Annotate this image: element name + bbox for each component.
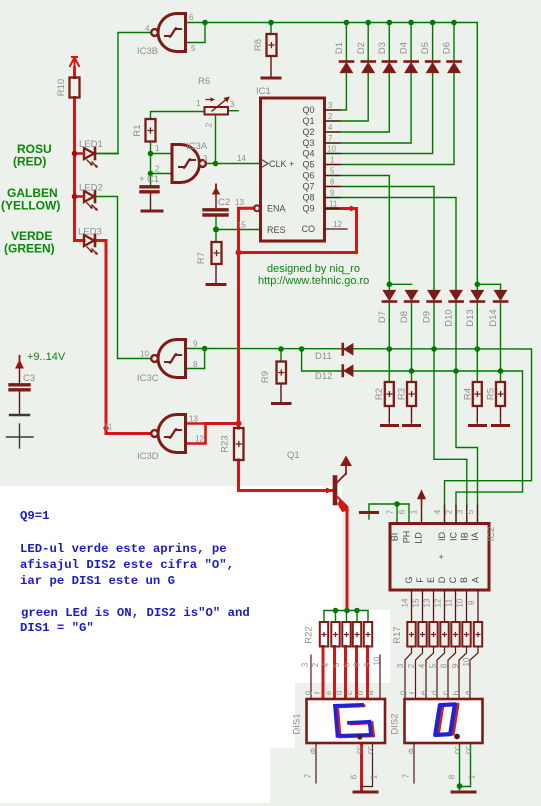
svg-text:D4: D4 xyxy=(399,42,410,54)
display DIS1 box xyxy=(307,699,386,743)
svg-text:4: 4 xyxy=(145,24,150,33)
diode D4 xyxy=(405,62,418,73)
svg-text:g: g xyxy=(303,691,312,695)
wire IC2 BI PH pins to ground xyxy=(369,504,409,519)
arrowhead red corner above Q1 base xyxy=(326,488,334,494)
svg-text:b: b xyxy=(356,690,365,695)
wire R3 bottom to ground xyxy=(411,406,413,423)
wire red R23 to Q1 base xyxy=(239,460,334,491)
wire R2 bottom to ground xyxy=(388,406,390,423)
svg-text:4: 4 xyxy=(322,662,331,667)
wire D7 pair stub down xyxy=(388,284,390,290)
junction red dot Q9 ENA IC3D node xyxy=(236,250,242,256)
svg-text:c: c xyxy=(345,691,354,695)
junction dots green xyxy=(148,20,504,789)
wire pot R6 pin3 stub xyxy=(228,110,238,112)
wire red R22 outputs to DIS1 xyxy=(322,647,325,700)
resistor R8 xyxy=(267,34,277,56)
svg-text:10: 10 xyxy=(140,350,149,359)
svg-text:10: 10 xyxy=(373,656,382,665)
svg-text:A: A xyxy=(471,577,481,583)
diode D5 xyxy=(426,62,439,73)
wire R22 rail stubs down to resistors xyxy=(323,611,325,623)
wire red IC3D input node to R23 xyxy=(206,424,239,429)
svg-text:Φ: Φ xyxy=(407,748,416,754)
white panel R22 zone xyxy=(295,610,390,683)
wire R9 bottom to ground xyxy=(280,384,282,403)
ground below C3 xyxy=(7,424,34,448)
svg-text:6: 6 xyxy=(330,178,335,187)
svg-text:7: 7 xyxy=(386,509,395,514)
wire IC3A output to IC1 CLK xyxy=(203,163,261,165)
svg-text:7: 7 xyxy=(328,134,333,143)
svg-text:D: D xyxy=(437,576,447,583)
svg-text:1: 1 xyxy=(370,774,379,779)
ground below R5 xyxy=(493,424,509,427)
wire D14 stub down xyxy=(500,284,502,290)
svg-text:CO: CO xyxy=(302,224,316,234)
svg-text:2: 2 xyxy=(407,663,416,668)
svg-text:IA: IA xyxy=(470,532,480,541)
resistor R2 xyxy=(385,382,394,406)
svg-text:6: 6 xyxy=(350,774,359,779)
wire red ENA stub xyxy=(239,207,255,210)
svg-text:D3: D3 xyxy=(377,42,388,54)
wire top bus from IC3B output pins to diode row xyxy=(205,23,501,285)
diode D2 xyxy=(362,62,375,73)
IC2 top pin stubs xyxy=(445,505,478,524)
blue description text block xyxy=(20,509,250,635)
svg-text:C: C xyxy=(448,576,458,583)
wire IC1 Q4 to D5 xyxy=(325,73,433,154)
GREEN WIRES xyxy=(96,23,532,792)
DIS1 digit G red shadow xyxy=(338,706,374,737)
wire DIS2 CC2 jog xyxy=(460,743,471,787)
svg-text:IC2: IC2 xyxy=(486,527,497,542)
svg-text:cc: cc xyxy=(464,746,473,754)
svg-text:13: 13 xyxy=(235,198,244,207)
svg-text:14: 14 xyxy=(237,154,246,163)
svg-text:D10: D10 xyxy=(444,309,455,326)
svg-text:IC: IC xyxy=(449,531,459,541)
svg-text:DIS2: DIS2 xyxy=(390,713,401,734)
DIS1 decimal point xyxy=(357,734,362,739)
svg-text:F: F xyxy=(415,577,425,583)
arrowhead red at IC3D output corner xyxy=(103,427,109,435)
wire D13 pair stub down xyxy=(476,284,478,290)
wire segment rail 1 from IC3C output xyxy=(205,349,532,524)
svg-text:R4: R4 xyxy=(463,388,474,400)
svg-text:d: d xyxy=(335,691,344,695)
svg-text:R7: R7 xyxy=(196,252,207,264)
svg-text:5: 5 xyxy=(332,662,341,667)
diode D8 xyxy=(405,291,418,302)
svg-text:D7: D7 xyxy=(377,311,388,323)
svg-text:C2: C2 xyxy=(218,197,230,208)
svg-text:3: 3 xyxy=(301,662,310,667)
svg-text:2: 2 xyxy=(328,112,333,121)
wire D13 column through rail1 to R4 xyxy=(476,303,478,383)
wire IC1 Q8 to D10 xyxy=(325,198,457,291)
resistor R10 xyxy=(70,78,80,98)
IC1 ENA bubble pin13 xyxy=(254,205,260,211)
supply arrow above C3 xyxy=(15,355,24,369)
svg-text:4: 4 xyxy=(328,123,333,132)
svg-text:B: B xyxy=(459,577,469,583)
wire R5 bottom to ground xyxy=(500,406,502,423)
svg-text:+: + xyxy=(139,174,145,185)
svg-text:5: 5 xyxy=(191,44,196,53)
DIS2 digit 0 red shadow xyxy=(438,704,458,735)
svg-text:R9: R9 xyxy=(260,371,271,383)
svg-text:2: 2 xyxy=(155,165,160,174)
svg-text:cc: cc xyxy=(453,746,462,754)
svg-text:g: g xyxy=(398,691,407,695)
wire R9 top xyxy=(280,349,282,362)
svg-text:9: 9 xyxy=(451,663,460,668)
ground below R7 xyxy=(207,283,225,286)
DIS2 digit 0 blue xyxy=(435,704,455,735)
LED LED1 xyxy=(74,148,98,168)
white text panel xyxy=(0,486,295,748)
wire red supply arrow to R10 xyxy=(73,68,76,78)
svg-text:11: 11 xyxy=(445,598,454,607)
diode D9 xyxy=(428,291,441,302)
wire IC3B input tie xyxy=(186,23,206,43)
svg-text:cc: cc xyxy=(355,746,364,754)
svg-text:Q9: Q9 xyxy=(303,204,315,214)
svg-text:LED1: LED1 xyxy=(79,139,103,150)
wire IC1 Q5 to D6 xyxy=(325,73,455,165)
IC2 internal labels xyxy=(390,531,481,584)
diode D12 xyxy=(343,366,353,377)
svg-text:3: 3 xyxy=(396,663,405,668)
ground below R9 xyxy=(273,402,291,405)
wire IC3B pin4 to LED1 cathode xyxy=(96,33,152,154)
svg-text:10: 10 xyxy=(327,145,336,154)
diode D1 xyxy=(340,62,353,73)
svg-text:RES: RES xyxy=(267,225,286,235)
wire DIS1 CC2 jog xyxy=(362,743,373,787)
COMPONENTS (maroon) xyxy=(70,14,348,453)
wire IC1 Q6 to D7 D8 pair xyxy=(325,176,412,285)
svg-text:DIS1 = "G": DIS1 = "G" xyxy=(20,621,94,635)
svg-text:a: a xyxy=(463,690,472,695)
svg-text:3: 3 xyxy=(230,100,235,109)
svg-text:2: 2 xyxy=(445,509,454,514)
svg-text:http://www.tehnic.go.ro: http://www.tehnic.go.ro xyxy=(258,275,369,287)
resistor R7 xyxy=(212,242,222,264)
wires DIS1 extra pins xyxy=(311,655,380,699)
svg-text:(GREEN): (GREEN) xyxy=(4,242,55,256)
LABELS: pin numbers gray xyxy=(104,13,342,444)
svg-text:iar pe DIS1 este un G: iar pe DIS1 este un G xyxy=(20,574,175,588)
svg-text:7: 7 xyxy=(304,773,313,778)
wires R17 to DIS2 pins xyxy=(405,647,478,700)
ground below DIS1 xyxy=(354,791,377,794)
svg-text:c: c xyxy=(441,691,450,695)
svg-text:IC3C: IC3C xyxy=(137,373,159,384)
LABELS: component names gray xyxy=(23,39,499,735)
svg-text:LED-ul verde este aprins, pe: LED-ul verde este aprins, pe xyxy=(20,542,227,556)
wire D10 column to IC2 pin IA xyxy=(456,303,478,524)
IC1 CO pin12 stub xyxy=(325,228,348,230)
display DIS2 box xyxy=(405,699,483,743)
svg-text:5: 5 xyxy=(429,663,438,668)
ground below C1 xyxy=(142,210,162,213)
svg-text:D13: D13 xyxy=(465,309,476,326)
svg-text:Q9=1: Q9=1 xyxy=(20,509,50,523)
svg-text:D14: D14 xyxy=(488,309,499,326)
svg-text:D11: D11 xyxy=(315,351,332,362)
svg-text:ENA: ENA xyxy=(267,204,286,214)
svg-text:LED3: LED3 xyxy=(78,227,102,238)
svg-text:a: a xyxy=(366,690,375,695)
svg-text:14: 14 xyxy=(401,598,410,607)
svg-text:D2: D2 xyxy=(356,42,367,54)
svg-text:15: 15 xyxy=(237,221,246,230)
potentiometer R6 xyxy=(205,97,230,115)
svg-text:D8: D8 xyxy=(399,311,410,323)
svg-text:+9..14V: +9..14V xyxy=(27,351,66,363)
DIS1 digit G blue xyxy=(335,705,371,736)
LED LED3 xyxy=(84,235,98,255)
wire D1-D6 tops from bus xyxy=(345,23,347,62)
svg-text:IC1: IC1 xyxy=(256,86,271,97)
wire IC2 LD stub to supply arrow xyxy=(421,497,423,524)
svg-text:9: 9 xyxy=(467,600,476,605)
svg-text:3: 3 xyxy=(328,101,333,110)
IC1 right pin stubs xyxy=(325,110,348,229)
wire IC1 Q3 to D4 xyxy=(325,73,412,144)
svg-text:8: 8 xyxy=(353,662,362,667)
svg-text:IB: IB xyxy=(459,532,469,541)
capacitor C1 polarized xyxy=(141,187,158,192)
resistor R23 xyxy=(234,428,244,460)
svg-text:10: 10 xyxy=(462,657,471,666)
svg-text:4: 4 xyxy=(418,663,427,668)
wire LED2 cathode to IC3C pin10 xyxy=(96,197,152,359)
supply arrow above R10 xyxy=(70,57,79,70)
svg-text:11: 11 xyxy=(329,200,338,209)
svg-text:Q0: Q0 xyxy=(303,105,315,115)
wire pot R6 wiper to IC3A output xyxy=(215,115,217,164)
svg-text:1: 1 xyxy=(468,774,477,779)
svg-text:designed by niq_ro: designed by niq_ro xyxy=(267,263,360,275)
svg-text:Q2: Q2 xyxy=(303,127,315,137)
svg-text:11: 11 xyxy=(104,423,113,432)
ground below R4 xyxy=(470,424,486,427)
wire R22 common rail xyxy=(324,610,368,612)
svg-text:12: 12 xyxy=(434,598,443,607)
wire red Q1 emitter to R22 rail xyxy=(346,508,349,611)
wire R8 bottom to ground xyxy=(270,56,272,77)
wire C1 bottom to ground xyxy=(150,194,152,211)
svg-text:D9: D9 xyxy=(422,311,433,323)
ground at IC2 BI PH xyxy=(361,511,378,514)
diode D13 xyxy=(471,291,484,302)
wire R4 bottom to ground xyxy=(476,406,478,423)
svg-text:G: G xyxy=(404,576,414,583)
svg-text:15: 15 xyxy=(412,598,421,607)
svg-text:12: 12 xyxy=(195,435,204,444)
nand gate IC3B xyxy=(151,14,185,52)
svg-text:Q4: Q4 xyxy=(303,149,315,159)
wire R1 top to pot R6 pin1 xyxy=(151,112,205,120)
svg-text:8: 8 xyxy=(440,663,449,668)
wire red LED3 cathode to IC3D output xyxy=(96,241,152,434)
svg-text:BI: BI xyxy=(390,533,400,542)
svg-text:5: 5 xyxy=(330,167,335,176)
wire red LED3 anode stub xyxy=(75,239,85,242)
svg-text:d: d xyxy=(430,691,439,695)
svg-text:cc: cc xyxy=(366,746,375,754)
wire C2 column supply arrow to cap xyxy=(215,191,217,209)
wire IC2 PH stub xyxy=(408,504,410,524)
IC1 internal labels xyxy=(262,105,316,235)
svg-text:D12: D12 xyxy=(315,371,332,382)
svg-text:R2: R2 xyxy=(374,388,385,400)
svg-text:CLK: CLK xyxy=(269,159,287,169)
svg-text:R6: R6 xyxy=(198,76,210,87)
ground below R8 xyxy=(262,77,280,80)
svg-text:1: 1 xyxy=(155,144,160,153)
wire IC3A input 2 stub xyxy=(151,173,173,175)
resistor network R17 (7 resistors) xyxy=(407,622,482,647)
wire IC3C input tie xyxy=(186,349,205,369)
svg-text:R3: R3 xyxy=(397,388,408,400)
svg-text:9: 9 xyxy=(363,662,372,667)
resistor network R22 (5 resistors) xyxy=(320,622,372,647)
svg-text:8: 8 xyxy=(448,774,457,779)
svg-text:D5: D5 xyxy=(420,42,431,54)
DIS2 bottom pin stub xyxy=(413,743,415,783)
svg-text:DIS1: DIS1 xyxy=(292,713,303,734)
arrowhead red Q9 wire end xyxy=(350,206,358,212)
svg-text:4: 4 xyxy=(433,509,442,514)
nand gate IC3C xyxy=(151,340,185,378)
svg-text:6: 6 xyxy=(398,509,407,514)
supply arrow above IC2 LD xyxy=(418,491,425,505)
transistor Q1 xyxy=(335,466,350,512)
svg-text:PH: PH xyxy=(402,531,412,544)
svg-text:LED2: LED2 xyxy=(79,183,103,194)
resistor R5 xyxy=(496,382,505,406)
svg-text:R22: R22 xyxy=(304,626,315,643)
svg-text:IC3A: IC3A xyxy=(186,141,208,152)
wire red IC1 Q9 loop to ENA xyxy=(239,209,357,253)
svg-text:1: 1 xyxy=(330,156,335,165)
svg-text:8: 8 xyxy=(193,360,198,369)
wire RES node to IC1 RES pin xyxy=(216,229,261,231)
capacitor C3 polarized xyxy=(10,368,29,415)
svg-text:+: + xyxy=(439,552,444,562)
diode D10 xyxy=(450,291,463,302)
svg-text:Q1: Q1 xyxy=(287,450,300,461)
wire C2 bottom to RES node xyxy=(215,217,217,243)
wire IC1 Q0 to D1 xyxy=(325,73,347,111)
svg-text:D1: D1 xyxy=(334,42,345,54)
svg-text:C1: C1 xyxy=(147,174,159,185)
svg-text:6: 6 xyxy=(189,13,194,22)
IC1 clock symbol xyxy=(262,160,269,168)
wire red R10 to LED chain rail xyxy=(73,98,76,241)
svg-text:10: 10 xyxy=(456,598,465,607)
resistor R1 xyxy=(146,119,156,142)
diode D11 xyxy=(343,344,353,355)
nand gate IC3A xyxy=(172,145,206,183)
svg-text:13: 13 xyxy=(423,598,432,607)
wire D9 column to IC2 pin IB xyxy=(434,303,467,524)
svg-text:C3: C3 xyxy=(23,373,35,384)
wire IC3A input 1 stub xyxy=(151,153,173,155)
resistor R4 xyxy=(473,382,482,406)
svg-text:3: 3 xyxy=(203,154,208,163)
IC2 bottom pin stubs to R17 xyxy=(412,590,479,622)
svg-text:b: b xyxy=(452,690,461,695)
resistor R3 xyxy=(407,382,416,406)
supply arrow above Q1 xyxy=(340,456,352,467)
wire R7 bottom to ground xyxy=(215,264,217,283)
ground below R2 xyxy=(382,424,398,427)
wire D8 column through rail2 to R3 xyxy=(411,303,413,383)
svg-text:afisajul DIS2 este cifra "O",: afisajul DIS2 este cifra "O", xyxy=(20,558,234,572)
svg-text:1: 1 xyxy=(410,509,419,514)
svg-text:e: e xyxy=(419,690,428,695)
wire segment rail 2 branch xyxy=(302,349,523,524)
svg-text:R23: R23 xyxy=(220,435,231,452)
svg-text:green LEd is ON, DIS2 is"O" an: green LEd is ON, DIS2 is"O" and xyxy=(21,606,250,620)
wire LED1 cathode lead xyxy=(96,153,118,155)
junction dots dark red on LED rail xyxy=(72,151,78,200)
svg-text:Q3: Q3 xyxy=(303,138,315,148)
svg-text:(RED): (RED) xyxy=(13,155,46,169)
svg-text:9: 9 xyxy=(330,189,335,198)
svg-text:6: 6 xyxy=(343,662,352,667)
capacitor C2 polarized xyxy=(204,210,227,215)
diode D3 xyxy=(383,62,396,73)
diode D6 xyxy=(448,62,461,73)
svg-text:(YELLOW): (YELLOW) xyxy=(1,199,60,213)
svg-text:13: 13 xyxy=(189,415,198,424)
wire IC1 Q1 to D2 xyxy=(325,73,369,122)
nand gate IC3D xyxy=(151,415,185,453)
IC IC1 box xyxy=(261,98,325,241)
wire DIS2 CC to ground xyxy=(459,743,461,791)
wire D7 column through rail1 to R2 xyxy=(388,303,390,383)
svg-text:2: 2 xyxy=(205,122,214,127)
diode D7 xyxy=(383,291,396,302)
svg-text:Q5: Q5 xyxy=(303,160,315,170)
RED HIGHLIGHTED NET xyxy=(75,68,368,791)
svg-text:Q7: Q7 xyxy=(303,182,315,192)
svg-text:9: 9 xyxy=(193,340,198,349)
wire IC1 Q2 to D3 xyxy=(325,73,390,133)
svg-text:IC3D: IC3D xyxy=(137,451,159,462)
IC IC2 box xyxy=(390,524,489,591)
svg-text:7: 7 xyxy=(402,773,411,778)
wire R1 bottom to C1 through IC3A inputs xyxy=(150,142,152,186)
svg-text:e: e xyxy=(324,690,333,695)
svg-text:ID: ID xyxy=(437,531,447,541)
svg-text:Q6: Q6 xyxy=(303,171,315,181)
svg-text:1: 1 xyxy=(196,99,201,108)
LED LED2 xyxy=(74,191,98,211)
svg-text:5: 5 xyxy=(466,509,475,514)
svg-text:LD: LD xyxy=(414,532,424,544)
supply arrow above C2 xyxy=(212,184,220,195)
wire IC2 BI stub xyxy=(396,504,398,524)
